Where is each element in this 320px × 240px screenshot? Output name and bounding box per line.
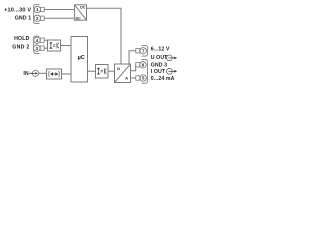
terminal clamp tabs left <box>40 7 44 50</box>
U OUT output symbol <box>167 55 178 61</box>
svg-text:A: A <box>125 76 128 81</box>
svg-text:GND 1: GND 1 <box>15 16 32 22</box>
svg-text:I OUT: I OUT <box>151 69 166 75</box>
terminal 7 <box>140 48 146 54</box>
bracket around terminals 6,5 <box>141 60 147 84</box>
terminal 4 <box>34 37 40 43</box>
wire D/A to terminal6 <box>131 65 136 71</box>
svg-text:IN: IN <box>23 71 28 77</box>
terminal 5 <box>140 75 146 81</box>
input conditioning box2 (IN path) <box>47 69 62 79</box>
wire terminal4 to isolator box1 <box>44 39 47 41</box>
wire terminal3 to isolator box1 <box>44 47 47 49</box>
wire terminal1 to DCDC <box>44 9 74 11</box>
wire box1 to uC <box>61 45 72 47</box>
microcontroller uC <box>71 37 88 83</box>
svg-text:DC: DC <box>80 6 86 10</box>
wire IN lead <box>29 72 32 74</box>
svg-text:GND 3: GND 3 <box>151 62 167 68</box>
wire box3 to D/A <box>108 70 115 72</box>
svg-text:HOLD: HOLD <box>14 36 30 42</box>
terminal 2 <box>34 15 40 21</box>
terminal 6 <box>140 62 146 68</box>
wire IN circle to box2 <box>39 72 47 74</box>
wire uC to isolator box3 <box>88 70 96 72</box>
bracket around terminal 7 <box>141 46 147 57</box>
IN input symbol (circle with arrow) <box>31 70 39 76</box>
wire DCDC output to D/A top <box>87 8 122 64</box>
terminal 1 <box>34 6 40 12</box>
wire terminal2 to DCDC <box>44 17 74 19</box>
svg-text:µC: µC <box>78 55 85 61</box>
terminal 3 <box>34 45 40 51</box>
isolator box1 (HOLD path) <box>48 40 61 51</box>
DC/DC converter <box>75 5 87 20</box>
wire box2 to uC <box>62 73 72 75</box>
D/A converter <box>115 64 131 83</box>
isolator box3 (before D/A) <box>96 65 109 79</box>
svg-text:6...12 V: 6...12 V <box>151 47 170 53</box>
svg-text:D: D <box>117 66 120 71</box>
wire D/A to terminal5 <box>131 77 136 79</box>
bracket around terminals 4,3 <box>34 36 40 53</box>
wire terminal7 to D/A top <box>129 51 136 64</box>
bracket around terminals 1,2 <box>34 5 40 24</box>
svg-text:GND 2: GND 2 <box>12 45 29 51</box>
terminal clamp tabs right <box>136 49 140 81</box>
svg-text:+10...30 V: +10...30 V <box>4 8 31 14</box>
svg-text:0...24 mA: 0...24 mA <box>151 76 175 82</box>
I OUT output symbol <box>167 68 178 74</box>
svg-text:U OUT: U OUT <box>151 55 168 61</box>
svg-text:DC: DC <box>76 17 82 21</box>
